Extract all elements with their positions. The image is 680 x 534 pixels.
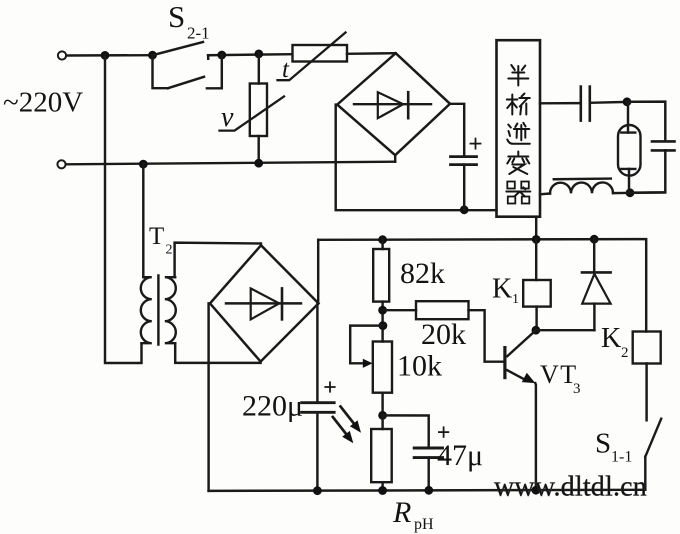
capacitor C1 plus sign bbox=[471, 143, 481, 145]
svg-text:20k: 20k bbox=[421, 318, 466, 351]
switch S2-1 pole 2 left arm bbox=[153, 55, 169, 88]
node: junction dot transformer feed bbox=[139, 160, 148, 169]
node: dot 82k top on rail bbox=[378, 235, 387, 244]
label S2-1 bbox=[168, 0, 210, 43]
wire: ground rail bbox=[209, 490, 646, 491]
wire: C3 bottom down and left to lamp bottom node bbox=[630, 150, 665, 192]
wire: C2 to lamp top node bbox=[590, 101, 627, 104]
relay coil K1 bbox=[535, 239, 537, 280]
wire: C4 bottom to ground rail bbox=[316, 412, 318, 490]
svg-text:1: 1 bbox=[512, 292, 519, 307]
flyback diode D1 bbox=[593, 239, 595, 272]
svg-text:pH: pH bbox=[414, 516, 434, 533]
thermistor t strike line with foot bbox=[278, 33, 346, 81]
node: lamp top junction dot bbox=[623, 97, 632, 106]
svg-text:www.dltdl.cn: www.dltdl.cn bbox=[494, 472, 647, 503]
node: dot C4 on ground rail bbox=[313, 486, 322, 495]
wire: secondary top to bridge2 top corner bbox=[175, 243, 261, 278]
lamp EL tube body bbox=[618, 125, 641, 176]
resistor 20k body bbox=[383, 309, 416, 311]
photoresistor RpH body bbox=[381, 415, 383, 429]
wire: bridge1 DC- from left corner down and right to inverter box bbox=[336, 105, 497, 211]
transistor VT3 collector lead bbox=[507, 330, 536, 356]
wire: bridge2 DC+ right corner down to 220u capacitor bbox=[316, 303, 318, 402]
label T2 bbox=[149, 223, 173, 258]
switch S1-1 lower contact bbox=[644, 457, 646, 490]
transformer T2 core bbox=[157, 276, 159, 345]
varistor v strike line with foot bbox=[220, 97, 285, 131]
transistor VT3 emitter arrowhead bbox=[522, 373, 536, 383]
wire: C1 bottom to DC- rail bbox=[463, 165, 465, 210]
node: dot 20k tap bbox=[378, 306, 387, 315]
node: dot wiper tap bbox=[379, 321, 388, 330]
bridge rectifier 1 diamond bbox=[337, 53, 450, 155]
capacitor C5 47u plates bbox=[414, 447, 442, 450]
char 逆 bbox=[508, 125, 511, 128]
svg-text:K: K bbox=[601, 323, 621, 354]
label 10k bbox=[397, 350, 442, 383]
capacitor C5 plus sign bbox=[439, 431, 448, 433]
wire: stub up to bridge1 bottom corner bbox=[394, 155, 396, 162]
svg-text:R: R bbox=[392, 496, 411, 529]
svg-text:3: 3 bbox=[573, 381, 581, 397]
char 半 bbox=[511, 65, 515, 70]
light arrow 1 bbox=[341, 407, 355, 424]
transformer T2 secondary winding bbox=[165, 277, 176, 343]
label: inverter box text 半桥逆变器 (hand drawn strokes) bbox=[506, 65, 530, 204]
transistor VT3 base bar bbox=[503, 348, 506, 378]
switch S2-1 pole 2 right contact bbox=[207, 55, 222, 88]
wire: top mains line from switch contact to thermistor bbox=[208, 54, 292, 55]
node: dot RpH on ground rail bbox=[378, 486, 387, 495]
wire: lamp top node to right corner bbox=[627, 102, 665, 142]
switch S2-1 pole 1 blade bbox=[153, 42, 204, 55]
capacitor C4 220u plates bbox=[302, 401, 335, 404]
wire: inductor to lamp bottom node and C3 branch bbox=[613, 191, 665, 194]
varistor v stub from top line bbox=[258, 54, 260, 84]
svg-text:1-1: 1-1 bbox=[611, 449, 632, 466]
light arrow 2 bbox=[333, 417, 347, 434]
label K2 bbox=[601, 323, 629, 361]
bridge rectifier 2 diamond bbox=[210, 245, 319, 361]
wire: bottom mains line to bridge1 bottom stub bbox=[66, 162, 395, 165]
varistor v body bbox=[250, 84, 267, 137]
node: dot emitter on ground rail bbox=[532, 486, 541, 495]
label RpH bbox=[392, 496, 434, 533]
wire: bridge2 DC- left corner down to ground rail bbox=[209, 303, 210, 491]
node: junction dot varistor top bbox=[254, 50, 263, 59]
wire: emitter down to ground rail bbox=[534, 383, 537, 490]
node: junction dot switch pivot bbox=[148, 51, 157, 60]
potentiometer 10k wiper arm bbox=[350, 326, 383, 364]
wire: inverter output top to series capacitor bbox=[540, 102, 580, 105]
diode inside bridge 2 bbox=[226, 302, 301, 304]
wire: 82k bottom node to 10k top bbox=[381, 302, 383, 342]
svg-text:~220V: ~220V bbox=[3, 87, 83, 119]
char 变 bbox=[517, 152, 519, 156]
wire: inverter output bottom to inductor bbox=[540, 192, 550, 195]
wire: node to 47u capacitor bbox=[383, 415, 429, 447]
label 20k bbox=[421, 318, 466, 351]
inductor L1 coil bbox=[550, 182, 613, 193]
label 47u bbox=[437, 439, 483, 472]
label ~220V bbox=[3, 87, 83, 119]
varistor bottom stub to mains bottom line bbox=[257, 136, 259, 163]
label K1 bbox=[492, 274, 519, 308]
wire: inverter bottom tap down to relay rail bbox=[535, 217, 537, 240]
svg-text:10k: 10k bbox=[397, 350, 442, 383]
svg-text:v: v bbox=[221, 102, 234, 133]
char 桥 bbox=[507, 99, 518, 101]
diode inside bridge 1 bbox=[354, 103, 431, 105]
switch S1-1 blade bbox=[645, 419, 661, 457]
node: junction dot at x105 top line bbox=[101, 51, 110, 60]
label VT3 bbox=[540, 360, 581, 397]
capacitor C1 electrolytic plates bbox=[451, 155, 477, 158]
lamp bottom lead bbox=[628, 169, 630, 193]
wire: 10k bottom to photoresistor node bbox=[381, 393, 383, 416]
svg-text:2: 2 bbox=[166, 243, 173, 258]
wire: supply rail y239 bbox=[318, 239, 646, 331]
relay coil K2 bbox=[633, 332, 661, 364]
char 器 bbox=[507, 182, 515, 189]
svg-text:47μ: 47μ bbox=[437, 439, 483, 472]
svg-text:S: S bbox=[595, 428, 611, 460]
svg-text:S: S bbox=[168, 0, 185, 34]
svg-text:t: t bbox=[282, 56, 290, 83]
svg-text:220μ: 220μ bbox=[242, 390, 303, 423]
lamp bottom electrode bbox=[621, 168, 635, 170]
thermistor t body bbox=[293, 45, 348, 62]
switch S2-1 pole 2 blade bbox=[168, 77, 204, 88]
node: junction dot varistor bottom bbox=[254, 159, 263, 168]
wire: mains top feed down to transformer primary bottom bbox=[105, 55, 142, 363]
svg-text:2: 2 bbox=[621, 345, 629, 361]
lamp top electrode bbox=[621, 131, 635, 133]
capacitor C3 parallel plates bbox=[652, 140, 675, 143]
wire: 20k right to VT3 base bbox=[469, 310, 504, 362]
label S1-1 bbox=[595, 428, 632, 466]
node: AC terminal L (open circle) bbox=[58, 51, 66, 59]
node: lamp bottom junction dot bbox=[626, 188, 635, 197]
watermark www.dltdl.cn bbox=[494, 472, 647, 503]
svg-text:82k: 82k bbox=[400, 257, 445, 290]
wire: thermistor to bridge1 top corner bbox=[347, 52, 396, 55]
switch S2-1 pole 1 right contact tick bbox=[207, 55, 209, 59]
capacitor C2 series plates bbox=[579, 87, 582, 121]
svg-text:K: K bbox=[492, 274, 512, 305]
node: dot C5 on ground rail bbox=[424, 486, 433, 495]
capacitor C4 plus sign bbox=[325, 386, 334, 388]
potentiometer 10k body bbox=[373, 342, 392, 393]
wire: bridge1 DC+ from right corner to filter cap bbox=[450, 104, 464, 156]
node: dot diode top on rail bbox=[590, 235, 599, 244]
node: dot K1 top on rail bbox=[532, 235, 541, 244]
node: dot VT3 collector bbox=[532, 326, 541, 335]
inductor L1 core line bbox=[554, 177, 611, 180]
label t bbox=[282, 56, 290, 83]
label 220u bbox=[242, 390, 303, 423]
wire: top mains line from terminal to switch pivot bbox=[66, 54, 152, 57]
wire: D1 anode to collector node bbox=[536, 329, 595, 331]
node: AC terminal N (open circle) bbox=[57, 160, 65, 168]
lamp top lead bbox=[627, 102, 629, 133]
wire: C5 bottom to ground rail bbox=[427, 458, 429, 491]
svg-text:T: T bbox=[149, 223, 164, 250]
wire: bridge2 DC+ right corner up to supply rail bbox=[317, 240, 319, 304]
label v bbox=[221, 102, 234, 133]
wire: secondary bottom to bridge2 bottom corner bbox=[175, 343, 260, 363]
wire: mains bottom feed down to transformer primary top bbox=[142, 164, 144, 277]
resistor 82k body bbox=[381, 240, 383, 249]
node: dot photoresistor top bbox=[378, 411, 387, 420]
transistor VT3 emitter lead bbox=[507, 370, 526, 380]
label 82k bbox=[400, 257, 445, 290]
inverter box U1 (half-bridge inverter) bbox=[497, 40, 541, 217]
potentiometer 10k wiper arrowhead bbox=[363, 359, 373, 368]
svg-text:2-1: 2-1 bbox=[187, 24, 210, 43]
transformer T2 primary winding bbox=[141, 277, 152, 343]
node: junction dot on DC- rail at filter cap bbox=[460, 205, 469, 214]
node: junction dot at x221.8 bbox=[217, 51, 226, 60]
